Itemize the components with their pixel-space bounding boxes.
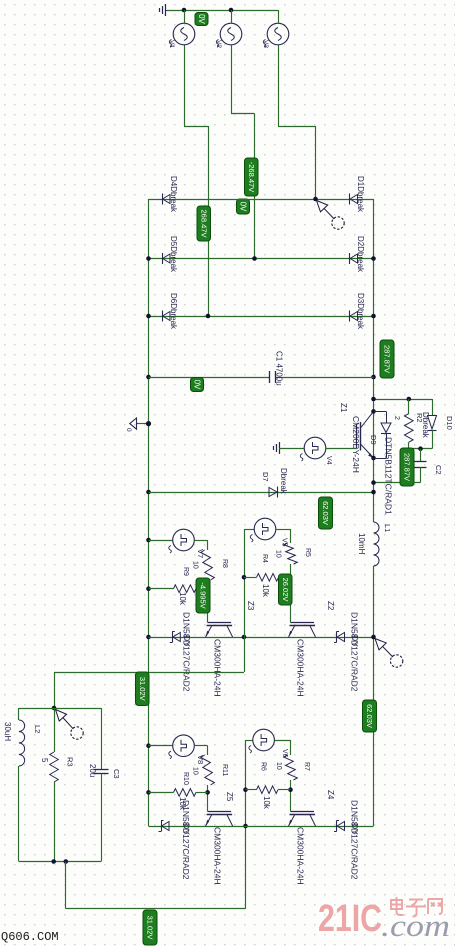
svg-text:R9: R9 [182, 567, 189, 576]
svg-text:62.03V: 62.03V [365, 704, 374, 728]
svg-text:30uH: 30uH [3, 722, 12, 741]
svg-text:L1: L1 [383, 524, 392, 532]
capacitor C2 [415, 449, 427, 483]
node outB-bottomrow [243, 824, 248, 829]
label R10 name [182, 772, 189, 785]
svg-text:5: 5 [40, 758, 49, 763]
svg-text:L2: L2 [33, 725, 42, 733]
wire R6 left [246, 789, 257, 791]
node rrail-row3 [371, 314, 376, 319]
label DTN5B112TC/RAD1 [384, 437, 394, 515]
svg-text:D5Dbreak: D5Dbreak [169, 236, 178, 273]
svg-text:R3: R3 [66, 757, 75, 767]
diode D9 [374, 411, 392, 458]
label V3 [262, 40, 269, 48]
node outB-R6 [243, 787, 248, 792]
svg-text:0: 0 [125, 428, 132, 432]
wire R11-gate [207, 785, 209, 812]
svg-text:D127C/RAD2: D127C/RAD2 [182, 640, 192, 692]
svg-text:V7: V7 [196, 549, 205, 558]
wire load bottom [19, 861, 101, 863]
svg-text:10: 10 [192, 561, 199, 569]
label D1Dbreak [356, 176, 365, 213]
label R5 [304, 548, 311, 557]
node Z1-emitter [371, 456, 376, 461]
node rrail-C1 [371, 375, 376, 380]
svg-text:D10: D10 [445, 416, 454, 430]
label 5 (R3) [40, 758, 49, 763]
wire row1 [149, 199, 374, 201]
diode D14 (bottom-right) [334, 821, 345, 832]
inductor L2 [19, 708, 25, 862]
wire R6 right [278, 789, 291, 791]
diode D12 (bottom-left) [159, 821, 170, 832]
wire phase1 jog [184, 126, 209, 316]
source V5 [250, 518, 276, 542]
svg-text:D127C/RAD2: D127C/RAD2 [181, 828, 191, 880]
svg-text:Dbreak: Dbreak [421, 412, 430, 439]
svg-text:V4: V4 [325, 456, 332, 465]
svg-text:Z3: Z3 [246, 601, 255, 611]
node rail-row3 [146, 314, 151, 319]
label 10k (R10) [178, 797, 187, 811]
resistor R2 [405, 399, 414, 449]
label pin 2 (D9) [393, 416, 400, 420]
label D6Dbreak [169, 293, 178, 330]
diode D3 [350, 311, 358, 322]
wire rail-V8 [149, 745, 173, 747]
label D1N58xx (bottom-left) [181, 800, 192, 880]
label CM300HA-24H (Z2) [296, 639, 306, 697]
node D7-rail right [371, 490, 376, 495]
label CM300HA-24H (Z3) [213, 639, 223, 697]
label 26.02V [279, 574, 293, 605]
svg-text:D9: D9 [369, 435, 378, 445]
node snub-C2 [418, 446, 423, 451]
wire outB vertical [245, 740, 247, 909]
label 62.03V (rail low) [363, 700, 377, 732]
node snub-R2 [407, 397, 412, 402]
label 20u [88, 764, 97, 777]
node midrow-out [242, 635, 247, 640]
label R2 [415, 413, 424, 423]
label V7 [196, 549, 205, 558]
label R8 [221, 559, 228, 568]
label R11 [221, 764, 228, 776]
wire R4 right [279, 577, 291, 579]
label L1 [383, 524, 392, 532]
svg-text:0V: 0V [197, 14, 206, 24]
wire C1 row [149, 377, 374, 379]
label 10mH [357, 533, 366, 555]
svg-text:C1 4700u: C1 4700u [275, 351, 284, 386]
label R7 [303, 762, 310, 771]
label D1N58xx (mid-left) [182, 612, 193, 692]
svg-text:V8: V8 [196, 755, 205, 764]
node rrail-row2 [371, 256, 376, 261]
node V2 top junction [229, 8, 234, 13]
diode D11 (mid-left) [170, 632, 181, 643]
wire L2 top [19, 708, 54, 710]
label V2 [215, 40, 222, 48]
svg-text:R10: R10 [182, 772, 189, 785]
svg-text:CM300HA-24H: CM300HA-24H [213, 639, 223, 697]
label -4.995V [196, 578, 210, 613]
node outA-R4 [242, 575, 247, 580]
wire rail-R10 [149, 792, 174, 794]
svg-text:10k: 10k [262, 796, 271, 810]
svg-text:R4: R4 [261, 554, 268, 563]
svg-text:D6Dbreak: D6Dbreak [169, 293, 178, 330]
svg-text:V2: V2 [215, 40, 222, 48]
source V6 [249, 729, 275, 753]
source V8 [169, 735, 195, 759]
label Dbreak (R2) [421, 412, 430, 439]
label 268.47V [197, 206, 211, 241]
label C3 [112, 769, 121, 779]
label Z1 [339, 403, 348, 413]
node rail-R9 [146, 586, 151, 591]
resistor R9 [174, 585, 197, 593]
svg-text:R7: R7 [303, 762, 310, 771]
label D1N58xx (bottom-right) [350, 800, 361, 880]
label C2 [434, 465, 443, 475]
label V6 [281, 749, 288, 758]
source V1 [169, 10, 195, 126]
svg-text:0V: 0V [193, 380, 202, 390]
svg-text:V1: V1 [168, 40, 175, 48]
wire V4 left [279, 448, 304, 450]
wire phase3 jog [278, 126, 316, 199]
node phase1-row3 [206, 314, 211, 319]
svg-text:D2Dbreak: D2Dbreak [356, 236, 365, 273]
svg-text:R6: R6 [260, 762, 267, 771]
svg-text:CM300HA-24H: CM300HA-24H [213, 827, 223, 885]
svg-text:62.03V: 62.03V [321, 501, 330, 525]
diode D6 [163, 311, 171, 322]
svg-text:Q606.COM: Q606.COM [1, 930, 59, 944]
svg-text:10k: 10k [178, 592, 187, 606]
node snub-rail [371, 397, 376, 402]
diode D10 [428, 399, 437, 449]
label V8 [196, 755, 205, 764]
resistor R7 [284, 755, 298, 780]
node midrow-rail [371, 635, 376, 640]
svg-text:Z4: Z4 [326, 790, 335, 800]
wire load top drop [54, 672, 56, 708]
wire load top [54, 672, 244, 674]
ground (V4) [274, 442, 285, 454]
label CM300HA-24H (Z4) [296, 827, 306, 885]
label D1N58xx (mid-right) [350, 612, 361, 692]
svg-text:Dbreak: Dbreak [279, 468, 288, 495]
svg-text:268.47V: 268.47V [199, 210, 208, 238]
node R6-gate [288, 787, 293, 792]
wire C2 return [374, 482, 421, 484]
diode D13 (mid-right) [334, 632, 345, 643]
node R10-gate [205, 790, 210, 795]
svg-text:D127C/RAD2: D127C/RAD2 [350, 828, 360, 880]
label R3 [66, 757, 75, 767]
node rail-V7 [146, 538, 151, 543]
wire phase2 jog [231, 114, 255, 259]
svg-text:DTN5B112TC/RAD1: DTN5B112TC/RAD1 [384, 437, 394, 515]
svg-text:21IC: 21IC [318, 898, 382, 940]
wire D7 row [149, 492, 374, 494]
label V5 [281, 538, 288, 547]
inductor L1 [374, 522, 380, 566]
wire R8-gate [207, 580, 209, 623]
node rail-C1 [146, 375, 151, 380]
source V4 [300, 437, 326, 461]
resistor R6 [257, 786, 279, 794]
label 10 (R7) [275, 762, 282, 770]
svg-text:10k: 10k [178, 797, 187, 811]
label CM200DY-24H [351, 416, 361, 473]
node rail-R10 [146, 790, 151, 795]
wire left rail [148, 199, 150, 826]
label D4Dbreak [169, 176, 178, 213]
node phase2-row2 [252, 256, 257, 261]
svg-text:31.02V: 31.02V [146, 916, 155, 940]
svg-text:D4Dbreak: D4Dbreak [169, 176, 178, 213]
wire V7-R8 [194, 540, 207, 550]
wire top bus [167, 10, 278, 12]
node rail-V8 [146, 743, 151, 748]
resistor R3 [50, 708, 59, 862]
label 10 (R11) [192, 767, 199, 775]
label Z5 [225, 792, 234, 802]
svg-text:20u: 20u [88, 764, 97, 777]
probe (row1) [317, 201, 345, 230]
node V1 top junction [182, 8, 187, 13]
node rail-row2 [146, 256, 151, 261]
label D3Dbreak [356, 293, 365, 330]
label 10k (R6) [262, 796, 271, 810]
label 10k (R9) [178, 592, 187, 606]
svg-text:DY: DY [182, 823, 192, 835]
node load bottom R3 [51, 859, 56, 864]
svg-text:Z2: Z2 [326, 601, 335, 611]
label 0V (top) [195, 13, 208, 26]
igbt Z2 [289, 623, 316, 638]
diode D7 [269, 487, 278, 498]
resistor R4 [257, 574, 279, 582]
node Z1-collector [371, 409, 376, 414]
diode D5 [163, 253, 171, 264]
label D5Dbreak [169, 236, 178, 273]
port 0 [125, 418, 151, 432]
svg-text:10mH: 10mH [357, 533, 366, 555]
diode D4 [163, 194, 171, 205]
svg-text:V5: V5 [281, 538, 288, 547]
svg-text:R5: R5 [304, 548, 311, 557]
label 30uH [3, 722, 12, 741]
wire right rail lower [373, 566, 375, 826]
wire V8-R11 [194, 746, 207, 756]
svg-text:10: 10 [275, 550, 282, 558]
wire outA vertical [244, 529, 246, 672]
svg-text:2: 2 [393, 416, 400, 420]
label C1 4700u [275, 351, 284, 386]
diode D2 [350, 253, 358, 264]
label 0V (C1) [191, 378, 204, 392]
resistor R10 [174, 789, 197, 797]
svg-text:DY: DY [350, 823, 360, 835]
node phase3-row1 [313, 197, 318, 202]
label D9 [369, 435, 378, 445]
wire R10-gate2 [196, 792, 208, 794]
label D2Dbreak [356, 236, 365, 273]
source V3 [263, 10, 289, 126]
wire snubber bottom [409, 448, 432, 450]
node C2-rail [371, 480, 376, 485]
node rail-D7 [146, 490, 151, 495]
svg-text:10: 10 [275, 762, 282, 770]
wire V5 left [244, 529, 254, 531]
label 31.02V (rail) [136, 672, 150, 706]
wire mid row [149, 637, 374, 639]
label 0V (phase2) [237, 199, 250, 214]
label 10 (R5) [275, 550, 282, 558]
label Dbreak (D7) [279, 468, 288, 495]
source V7 [169, 529, 195, 553]
wire R5-gate [290, 564, 292, 623]
svg-text:Z1: Z1 [339, 403, 348, 413]
wire V6 left [246, 740, 253, 742]
igbt Z1 [357, 411, 374, 458]
watermark 21IC.com [318, 897, 450, 943]
source V2 [216, 10, 242, 114]
wire snubber top [374, 399, 433, 401]
label Z2 [326, 601, 335, 611]
probe (mid row) [375, 639, 403, 668]
label L2 [33, 725, 42, 733]
svg-text:V6: V6 [281, 749, 288, 758]
label D10 [445, 416, 454, 430]
svg-text:Z5: Z5 [225, 792, 234, 802]
svg-text:DY: DY [182, 635, 192, 647]
svg-text:D127C/RAD2: D127C/RAD2 [350, 640, 360, 692]
wire R4 left [244, 577, 257, 579]
ground (top-left) [160, 4, 171, 16]
label 31.02V (bottom) [143, 910, 157, 945]
wire bottom return [66, 862, 246, 909]
label D7 [261, 472, 270, 482]
svg-text:R8: R8 [221, 559, 228, 568]
label Z3 [246, 601, 255, 611]
label R6 name [260, 762, 267, 771]
svg-text:10: 10 [192, 767, 199, 775]
wire row2 [149, 258, 374, 260]
capacitor C1 [270, 371, 276, 383]
wire right rail upper [373, 199, 375, 522]
svg-text:-4.995V: -4.995V [199, 582, 208, 608]
wire V4 to gate [326, 448, 357, 450]
wire C3 top [54, 708, 101, 710]
svg-text:CM200DY-24H: CM200DY-24H [351, 416, 361, 473]
wire rail-R9 [149, 588, 174, 590]
label CM300HA-24H (Z5) [213, 827, 223, 885]
label Z4 [326, 790, 335, 800]
label R9 name [182, 567, 189, 576]
svg-text:CM300HA-24H: CM300HA-24H [296, 827, 306, 885]
label R4 name [261, 554, 268, 563]
wire R7-gate [290, 780, 292, 812]
label 10 (R8) [192, 561, 199, 569]
igbt Z4 [289, 812, 316, 827]
wire V6-R7 [274, 740, 290, 755]
label 62.03V (D7) [319, 497, 333, 529]
wire row3 [149, 316, 374, 318]
svg-text:CM300HA-24H: CM300HA-24H [296, 639, 306, 697]
wire rail-V7 [149, 540, 173, 542]
svg-text:C3: C3 [112, 769, 121, 779]
resistor R8 [201, 550, 215, 580]
svg-text:26.02V: 26.02V [281, 578, 290, 602]
svg-text:V3: V3 [262, 40, 269, 48]
svg-text:31.02V: 31.02V [138, 677, 147, 701]
svg-text:287.87V: 287.87V [383, 345, 392, 373]
svg-text:-268.47V: -268.47V [247, 162, 256, 192]
capacitor C3 [94, 708, 109, 862]
svg-text:10k: 10k [261, 584, 270, 598]
label -268.47V [245, 158, 259, 196]
resistor R11 [201, 755, 215, 785]
igbt Z3 [206, 623, 233, 638]
label V4 [325, 456, 332, 465]
svg-text:D7: D7 [261, 472, 270, 482]
wire R9-gate [196, 588, 208, 590]
diode D1 [350, 194, 358, 205]
svg-text:D3Dbreak: D3Dbreak [356, 293, 365, 330]
label 287.87V (rail) [380, 340, 394, 378]
node load bottom drop [64, 859, 69, 864]
node rail-midrow [146, 635, 151, 640]
svg-text:R11: R11 [221, 764, 228, 776]
svg-text:DY: DY [350, 635, 360, 647]
igbt Z5 [206, 812, 233, 827]
resistor R5 [284, 543, 298, 564]
svg-text:D1Dbreak: D1Dbreak [356, 176, 365, 213]
label V1 [168, 40, 175, 48]
wire V5-R5 [276, 529, 291, 543]
node load top [52, 706, 57, 711]
svg-text:287.87V: 287.87V [403, 453, 412, 481]
wire bottom row [149, 826, 374, 828]
svg-text:0V: 0V [239, 202, 248, 212]
label 10k (R4) [261, 584, 270, 598]
label 287.87V (C2) [400, 448, 414, 486]
probe (load) [56, 710, 84, 740]
svg-text:C2: C2 [434, 465, 443, 475]
